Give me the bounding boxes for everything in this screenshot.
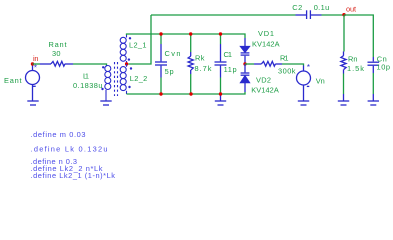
svg-text:L1: L1 <box>83 72 89 81</box>
capacitor C2 <box>296 10 322 19</box>
junction dot rail top 3 <box>219 32 222 35</box>
capacitor Cvn <box>155 44 167 78</box>
inductor L2_1 <box>120 35 126 64</box>
polarity dot L1 top <box>102 66 104 68</box>
node in <box>31 62 34 65</box>
voltage source Vn <box>297 66 311 102</box>
svg-text:L2_1: L2_1 <box>129 41 147 50</box>
junction dot rail bottom 2 <box>189 92 192 95</box>
ground (Rn) <box>338 94 349 105</box>
junction dot rail top 2 <box>189 32 192 35</box>
wire C1 stubs <box>220 34 222 94</box>
svg-text:Vn: Vn <box>316 76 325 85</box>
svg-text:VD1: VD1 <box>258 29 274 38</box>
ground (Vn) <box>298 101 309 105</box>
svg-text:VD2: VD2 <box>256 75 271 84</box>
inductor L2_2 <box>120 64 126 94</box>
ground (bottom rail) <box>215 94 226 105</box>
svg-text:Rn: Rn <box>348 54 358 63</box>
svg-text:.define Lk 0.132u: .define Lk 0.132u <box>31 145 108 154</box>
polarity dot L2_1 bottom <box>128 58 130 60</box>
svg-text:Eant: Eant <box>4 76 22 85</box>
wire C2 to out <box>322 14 345 16</box>
polarity dot L1 bottom <box>101 88 103 90</box>
resistor Rk <box>188 52 193 74</box>
wire out to Cn branch <box>344 15 373 57</box>
svg-text:in: in <box>33 54 39 63</box>
svg-text:8.7k: 8.7k <box>195 64 212 73</box>
svg-text:L2_2: L2_2 <box>130 74 148 83</box>
svg-text:C2: C2 <box>292 3 302 12</box>
varactor diode VD1 <box>241 38 250 64</box>
svg-text:out: out <box>346 5 356 14</box>
ground (L1) <box>100 101 111 105</box>
voltage source Eant <box>26 64 40 101</box>
resistor Rant <box>40 61 73 66</box>
wire out down to Rn <box>343 15 345 52</box>
svg-text:300k: 300k <box>278 66 296 75</box>
node center tap <box>125 62 128 65</box>
node out <box>342 13 345 16</box>
node diode junction <box>243 62 246 65</box>
junction dot rail bottom 1 <box>159 92 162 95</box>
wire center tap to riser <box>128 15 151 64</box>
svg-text:.define m 0.03: .define m 0.03 <box>31 130 86 139</box>
junction dot rail bottom 3 <box>219 92 222 95</box>
svg-text:KV142A: KV142A <box>251 85 279 94</box>
junction dot rail top 1 <box>159 32 162 35</box>
wire top outer rail <box>151 14 296 16</box>
svg-text:10p: 10p <box>377 63 391 72</box>
svg-text:Rant: Rant <box>49 40 67 49</box>
svg-text:*: * <box>307 63 310 72</box>
wire in to Rant <box>33 63 41 65</box>
svg-text:11p: 11p <box>224 65 237 74</box>
resistor Rn <box>341 52 346 74</box>
svg-text:*: * <box>34 64 37 73</box>
wire R1 to Vn <box>282 64 304 66</box>
wire Rant to L1 <box>73 64 107 66</box>
svg-text:C1: C1 <box>224 50 233 59</box>
wire Rn to ground <box>343 74 345 95</box>
svg-text:R1: R1 <box>280 54 289 63</box>
svg-text:KV142A: KV142A <box>252 39 280 48</box>
capacitor Cn <box>368 57 380 73</box>
transformer core <box>115 62 118 96</box>
wire bottom rail <box>127 92 246 94</box>
wire Cvn stubs <box>160 34 162 94</box>
polarity dot L2_2 bottom <box>128 86 130 88</box>
inductor L1 <box>105 65 111 101</box>
ground (Eant) <box>27 101 38 105</box>
wire Rk stubs <box>190 34 192 94</box>
wire diode junction to R1 <box>245 63 254 65</box>
svg-text:Rk: Rk <box>195 54 205 63</box>
svg-text:30: 30 <box>52 49 61 58</box>
svg-text:0.1u: 0.1u <box>314 3 330 12</box>
ground (Cn) <box>368 94 379 105</box>
wire inner top rail <box>127 34 246 38</box>
svg-text:1.5k: 1.5k <box>347 64 364 73</box>
svg-text:Cvn: Cvn <box>165 49 181 58</box>
svg-text:.define Lk2_1 (1-n)*Lk: .define Lk2_1 (1-n)*Lk <box>31 171 116 180</box>
svg-text:5p: 5p <box>165 67 174 76</box>
svg-text:0.1838u: 0.1838u <box>73 81 103 90</box>
polarity dot L2_2 top <box>130 67 132 69</box>
polarity dot L2_1 top <box>129 37 131 39</box>
varactor diode VD2 <box>241 64 250 92</box>
wire Cn to ground <box>372 73 374 94</box>
capacitor C1 <box>215 44 227 78</box>
resistor R1 <box>254 61 282 66</box>
